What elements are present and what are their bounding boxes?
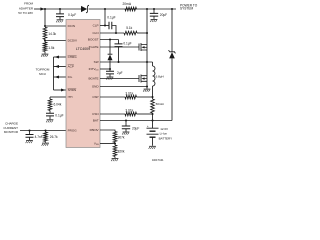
transistor Q2 bottom NFET — [138, 75, 140, 82]
wire FBDIV — [100, 130, 115, 132]
capacitor 0.1uF boost — [118, 40, 120, 44]
wire top input rail — [45, 8, 81, 10]
wire ITH — [50, 96, 66, 98]
node DCDIV tap — [44, 39, 46, 41]
op-amp U1 LTC4009 charger controller IC — [66, 20, 100, 148]
resistor 820k feedback bottom — [113, 145, 117, 157]
resistor 3.01k CSP filter — [125, 95, 137, 99]
wire VFB — [100, 143, 115, 145]
svg-text:2µF: 2µF — [117, 71, 123, 75]
svg-text:SYSTEM: SYSTEM — [180, 7, 193, 11]
svg-text:ITH: ITH — [68, 95, 73, 99]
wire CHRG with arrow — [54, 56, 67, 58]
wire BOOST — [100, 39, 119, 41]
diode D2 battery to system schottky — [171, 9, 173, 52]
wire BAT — [100, 120, 172, 122]
wire ACP with arrow — [54, 66, 67, 68]
svg-text:4009 TA01: 4009 TA01 — [152, 159, 164, 162]
resistor 26.7k PROG — [44, 129, 46, 131]
wire adapter input with arrowhead — [34, 8, 45, 10]
svg-text:0.1µF: 0.1µF — [55, 113, 63, 117]
ground ITH — [47, 119, 54, 121]
svg-text:4.7nF: 4.7nF — [35, 135, 43, 139]
capacitor 0.1uF CLP-CLN filter — [109, 22, 112, 29]
transistor Q1 top NFET — [138, 44, 140, 51]
svg-text:14.3k: 14.3k — [48, 32, 56, 36]
node VFB tap — [114, 142, 116, 144]
svg-text:BGATE: BGATE — [88, 77, 98, 81]
node adapter junction — [44, 8, 46, 10]
wire CSN — [100, 113, 125, 115]
resistor 5.1k CLN filter — [124, 31, 137, 35]
svg-text:20mΩ: 20mΩ — [123, 2, 132, 6]
svg-text:TGATE: TGATE — [89, 45, 99, 49]
svg-text:6.8µH: 6.8µH — [156, 75, 164, 79]
svg-text:20µF: 20µF — [160, 13, 167, 17]
ground divider — [44, 52, 46, 54]
resistor 14.3k — [43, 27, 47, 39]
wire CSP — [100, 96, 125, 98]
wire ICL with arrow — [54, 76, 67, 78]
wire MCU bracket — [53, 57, 55, 90]
svg-text:DCDIV: DCDIV — [68, 39, 78, 43]
resistor 3.01k CSN filter — [125, 112, 137, 116]
svg-text:50mΩ: 50mΩ — [156, 102, 165, 106]
svg-text:PROG: PROG — [68, 129, 78, 133]
resistor 50mOhm charge current sense — [151, 99, 155, 113]
capacitor 4.7nF PROG — [28, 129, 30, 131]
svg-text:Li-Ion: Li-Ion — [160, 131, 168, 135]
node top FET drain junction — [146, 8, 148, 10]
svg-text:5.1k: 5.1k — [126, 26, 132, 30]
wire DCIN — [45, 25, 66, 27]
wire SW — [100, 61, 153, 63]
svg-text:ACP: ACP — [68, 65, 74, 69]
diode D1 input schottky — [81, 6, 87, 12]
svg-text:BAT: BAT — [93, 119, 99, 123]
wire SHDN with arrow — [54, 89, 67, 91]
ground bottom FET source — [146, 85, 148, 87]
wire CLN — [100, 32, 124, 34]
wire BGATE — [100, 78, 139, 80]
capacitor 0.1uF input bypass — [59, 8, 61, 10]
resistor 1.5k — [43, 42, 47, 52]
svg-text:CSP: CSP — [92, 95, 98, 99]
ground feedback divider — [114, 157, 116, 159]
svg-text:CHRG: CHRG — [68, 55, 78, 59]
svg-text:GND: GND — [92, 85, 100, 89]
svg-text:+: + — [147, 124, 149, 128]
svg-text:SW: SW — [94, 60, 99, 64]
svg-text:FBDIV: FBDIV — [90, 128, 100, 132]
svg-text:MCU: MCU — [39, 72, 46, 76]
svg-text:FROM: FROM — [24, 2, 33, 6]
svg-text:CSN: CSN — [92, 112, 98, 116]
resistor 307k feedback top — [113, 132, 117, 143]
resistor 6.04k compensation — [49, 97, 51, 99]
svg-text:ICL: ICL — [68, 75, 73, 79]
battery 12.6V Li-Ion — [151, 119, 153, 121]
svg-text:ADAPTER: ADAPTER — [19, 6, 34, 10]
node battery diode rail junction — [171, 8, 173, 10]
svg-text:6.04k: 6.04k — [54, 103, 62, 107]
svg-text:SHDN: SHDN — [68, 88, 77, 92]
wire DCDIV — [45, 40, 66, 42]
svg-text:BOOST: BOOST — [88, 38, 99, 42]
svg-text:1.5k: 1.5k — [48, 46, 54, 50]
wire TGATE — [100, 46, 139, 48]
wire CLP to rail — [100, 25, 109, 27]
wire adapter to DCIN divider — [44, 9, 46, 26]
svg-text:CLN: CLN — [92, 31, 98, 35]
wire PROG — [20, 130, 66, 132]
svg-text:DCIN: DCIN — [68, 24, 75, 28]
svg-text:3.01k: 3.01k — [125, 91, 133, 95]
diode D3 bootstrap — [109, 40, 111, 55]
node CLP rail junction — [104, 8, 106, 10]
svg-text:0.1µF: 0.1µF — [107, 16, 115, 20]
capacitor 20uF battery — [125, 119, 127, 121]
svg-text:CLP: CLP — [93, 24, 99, 28]
svg-text:307k: 307k — [118, 135, 125, 139]
svg-text:TO/FROM: TO/FROM — [36, 68, 50, 72]
svg-text:MONITOR: MONITOR — [4, 130, 19, 134]
svg-text:20µF: 20µF — [132, 127, 139, 131]
svg-text:12.6V: 12.6V — [160, 127, 168, 131]
svg-text:820k: 820k — [118, 149, 125, 153]
inductor 6.8uH — [152, 62, 154, 66]
capacitor 0.1uF compensation — [49, 111, 51, 113]
svg-text:26.7k: 26.7k — [50, 135, 58, 139]
capacitor 20uF system rail — [153, 8, 155, 10]
wire GND pin — [100, 86, 147, 88]
svg-text:0.1µF: 0.1µF — [68, 13, 76, 17]
svg-text:5V TO 28V: 5V TO 28V — [18, 11, 33, 15]
svg-text:0.1µF: 0.1µF — [123, 41, 131, 45]
wire INTVDD — [100, 68, 110, 70]
svg-text:3.01k: 3.01k — [125, 108, 133, 112]
svg-text:BATTERY: BATTERY — [159, 136, 173, 140]
capacitor 2uF INTVDD bypass — [109, 69, 111, 71]
